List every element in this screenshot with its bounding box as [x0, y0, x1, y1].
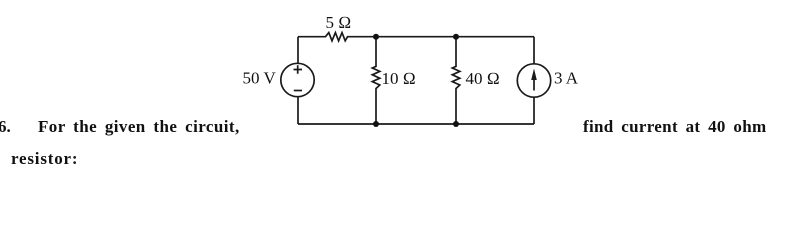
- svg-text:3 A: 3 A: [554, 69, 579, 88]
- svg-text:40 Ω: 40 Ω: [466, 69, 500, 88]
- svg-text:10 Ω: 10 Ω: [382, 69, 416, 88]
- svg-text:5 Ω: 5 Ω: [326, 13, 352, 32]
- svg-text:50 V: 50 V: [243, 69, 277, 88]
